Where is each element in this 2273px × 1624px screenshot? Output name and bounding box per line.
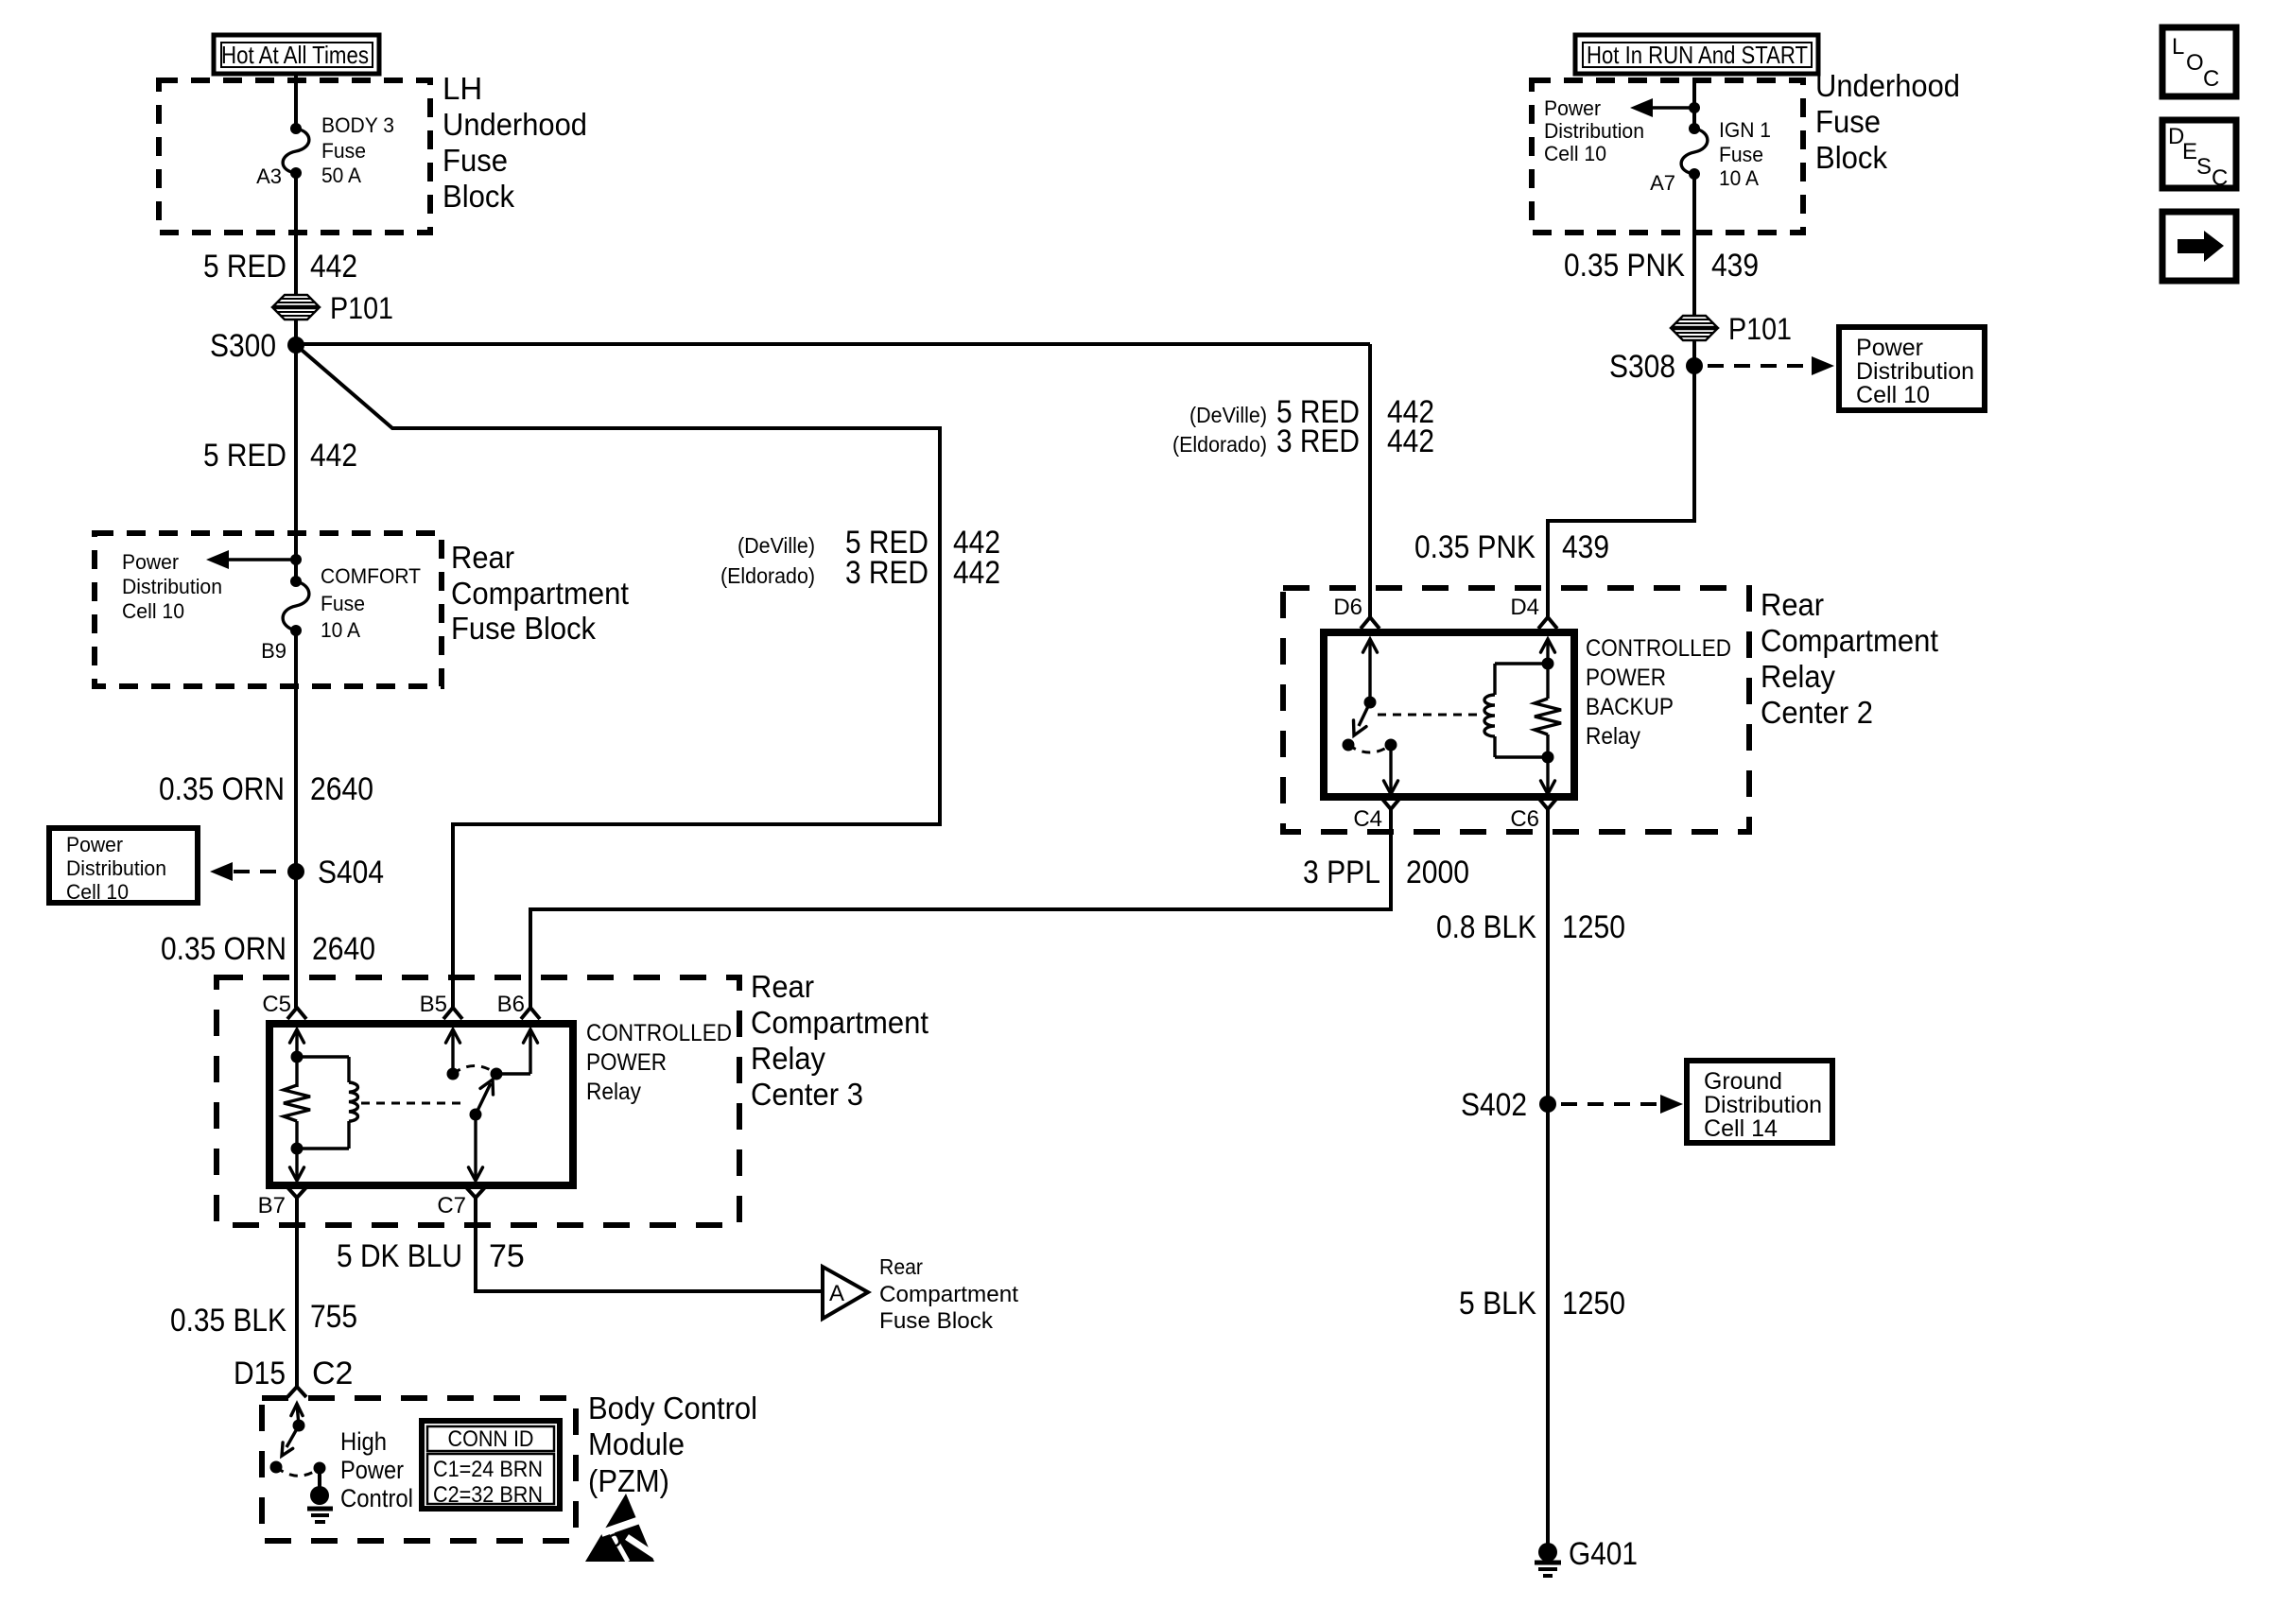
svg-text:POWER: POWER (586, 1049, 667, 1076)
wire: C7 down and right to fuse block connector A (476, 1198, 823, 1291)
svg-text:L: L (2172, 34, 2184, 60)
svg-text:Block: Block (442, 179, 514, 214)
svg-text:Relay: Relay (586, 1079, 641, 1105)
fuse IGN 1 10 A (1681, 118, 1771, 190)
resistor (relay 2) (1535, 699, 1561, 734)
svg-text:Underhood: Underhood (1815, 68, 1960, 103)
svg-text:10 A: 10 A (321, 618, 360, 642)
wire: feed into underhood fuse block (1692, 80, 1696, 129)
LOC legend box (2162, 27, 2236, 96)
svg-text:2640: 2640 (312, 931, 375, 967)
svg-text:5 RED: 5 RED (203, 249, 286, 285)
svg-text:0.8 BLK: 0.8 BLK (1436, 909, 1536, 945)
wire label (Eldorado) 3 RED 442 (mid) (720, 555, 1000, 591)
CONTROLLED POWER BACKUP Relay box (1324, 632, 1574, 797)
wire label (DeVille) 5 RED 442 (right) (1189, 394, 1434, 430)
svg-text:CONTROLLED: CONTROLLED (1586, 635, 1731, 662)
terminal C4 (1353, 798, 1400, 832)
svg-text:0.35 BLK: 0.35 BLK (170, 1303, 286, 1339)
svg-text:Block: Block (1815, 140, 1887, 175)
wire label 5 BLK 1250 (1459, 1286, 1625, 1322)
svg-text:2640: 2640 (310, 771, 373, 807)
dashed arrow S308 to Power Distribution (1708, 356, 1834, 375)
power label box: Hot At All Times (214, 35, 379, 74)
svg-text:C7: C7 (437, 1193, 466, 1218)
junction node (1689, 102, 1700, 113)
svg-text:C1=24 BRN: C1=24 BRN (433, 1457, 543, 1482)
relay coil (relay 2) (1484, 664, 1548, 757)
svg-text:Power: Power (1856, 335, 1923, 361)
svg-text:5 BLK: 5 BLK (1459, 1286, 1536, 1322)
Body Control Module dashed box (262, 1398, 576, 1541)
svg-text:Distribution: Distribution (122, 575, 222, 598)
svg-text:S308: S308 (1609, 349, 1675, 385)
terminal D4 (1510, 595, 1557, 629)
terminal C7 (437, 1187, 485, 1218)
svg-text:B9: B9 (261, 639, 286, 663)
resistor (relay 3) (284, 1085, 310, 1121)
svg-text:Fuse: Fuse (1815, 104, 1881, 139)
terminal C6 (1510, 798, 1557, 832)
svg-text:C6: C6 (1510, 806, 1539, 832)
svg-text:Power: Power (1544, 96, 1601, 120)
svg-text:B5: B5 (420, 992, 447, 1017)
Rear Compartment Fuse Block reference text (879, 1254, 1018, 1334)
svg-text:10 A: 10 A (1719, 166, 1759, 190)
svg-text:P101: P101 (1728, 312, 1792, 346)
High Power Control text (340, 1427, 413, 1512)
arrow to Power Distribution Cell 10 (206, 550, 291, 569)
svg-text:S402: S402 (1461, 1087, 1527, 1123)
svg-text:Rear: Rear (751, 969, 814, 1004)
terminal D6 (1333, 595, 1379, 629)
svg-text:Cell 14: Cell 14 (1704, 1115, 1778, 1142)
svg-text:D15: D15 (234, 1356, 286, 1391)
wire label 5 RED 442 (203, 438, 357, 474)
svg-text:Fuse: Fuse (1719, 143, 1763, 166)
wire from contact to C4 (1384, 745, 1398, 794)
Underhood Fuse Block (dashed box) (1532, 80, 1803, 233)
svg-text:Center 2: Center 2 (1761, 695, 1873, 730)
wire label 3 PPL 2000 (1303, 855, 1469, 890)
resistor branch from D4 (1541, 639, 1555, 699)
terminal C5 (262, 992, 306, 1019)
svg-text:0.35 PNK: 0.35 PNK (1564, 248, 1685, 284)
svg-text:BACKUP: BACKUP (1586, 694, 1674, 720)
svg-text:Rear: Rear (1761, 587, 1824, 622)
svg-text:Power: Power (122, 550, 179, 574)
svg-text:5 RED: 5 RED (203, 438, 286, 474)
switch contacts + dashed travel arc (relay 2) (1343, 739, 1397, 753)
wire label (DeVille) 5 RED 442 (mid) (737, 525, 1000, 561)
wire: fuse A3 down to P101 (294, 173, 298, 345)
svg-text:Relay: Relay (751, 1041, 825, 1076)
svg-text:Fuse: Fuse (442, 143, 508, 178)
svg-text:E: E (2182, 139, 2197, 164)
wire label 5 DK BLU 75 (337, 1238, 525, 1274)
svg-text:C: C (2212, 165, 2228, 191)
wire: S300 branch down to D6 (1368, 344, 1372, 617)
fuse BODY 3 50 A (283, 113, 394, 187)
Power Distribution Cell 10 box (left) (49, 828, 198, 904)
inline connector P101 (right) (1672, 312, 1792, 346)
svg-text:C5: C5 (262, 992, 291, 1017)
wire labels D15 C2 (234, 1356, 353, 1391)
power label box: Hot In RUN And START (1575, 35, 1818, 74)
dashed mechanical link (relay 2) (1378, 714, 1482, 717)
svg-text:Fuse Block: Fuse Block (879, 1308, 994, 1334)
svg-text:Cell 10: Cell 10 (1544, 142, 1606, 165)
svg-text:Cell 10: Cell 10 (122, 599, 184, 623)
svg-text:IGN 1: IGN 1 (1719, 118, 1771, 142)
wire label 0.35 ORN 2640 (second) (161, 931, 375, 967)
svg-text:B7: B7 (258, 1193, 286, 1218)
svg-text:P101: P101 (330, 291, 393, 325)
off-page connector A triangle (823, 1267, 868, 1319)
wire: S300 down into Rear Compartment Fuse Block to COMFORT fuse (294, 345, 298, 581)
Rear Compartment Relay Center 2 (dashed box) (1283, 588, 1749, 832)
switch common from B5 (446, 1029, 460, 1080)
svg-text:A: A (829, 1281, 844, 1306)
Rear Compartment Fuse Block (dashed box) (95, 533, 442, 686)
svg-text:Distribution: Distribution (1704, 1092, 1822, 1118)
svg-text:Ground: Ground (1704, 1068, 1782, 1095)
LH Underhood Fuse Block (dashed box) (159, 80, 430, 233)
svg-text:G401: G401 (1569, 1536, 1638, 1572)
svg-text:5 DK BLU: 5 DK BLU (337, 1238, 462, 1274)
wire label 5 RED 442 (203, 249, 357, 285)
svg-text:O: O (2186, 50, 2204, 76)
splice S402 (1539, 1096, 1556, 1113)
svg-text:C: C (2203, 66, 2219, 92)
wire label 0.35 PNK 439 (1564, 248, 1759, 284)
wire: C6 down to G401 (1546, 809, 1550, 1552)
switch arm with arrow (BCM) (282, 1425, 299, 1456)
svg-text:Cell 10: Cell 10 (66, 880, 129, 904)
wire label 0.35 ORN 2640 (159, 771, 373, 807)
ground G401 (1535, 1536, 1638, 1576)
svg-text:Fuse Block: Fuse Block (451, 611, 596, 646)
splice S300 (287, 337, 304, 354)
switch contact from B6 (491, 1029, 538, 1080)
wire below resistor to C6 (1541, 734, 1555, 794)
svg-text:2000: 2000 (1406, 855, 1469, 890)
svg-text:(DeVille): (DeVille) (1189, 403, 1267, 427)
svg-text:0.35 PNK: 0.35 PNK (1414, 529, 1536, 565)
switch arm with arrow (relay 2) (1354, 702, 1371, 735)
wire: COMFORT fuse down to C5 (294, 631, 298, 1008)
svg-text:Compartment: Compartment (751, 1005, 928, 1040)
BCM input arrow (high power control switch) (291, 1404, 305, 1432)
switch contacts + dashed travel arc (BCM) (270, 1461, 326, 1477)
svg-text:CONN ID: CONN ID (448, 1426, 534, 1452)
arrow legend box (2162, 212, 2236, 281)
wire: S300 branch right (296, 342, 1370, 346)
wire: S300 diagonal branch to B5 (296, 345, 940, 1008)
arrow to Power Distribution Cell 10 (1630, 98, 1691, 117)
svg-text:Control: Control (340, 1484, 413, 1512)
wire label 0.35 BLK 755 (170, 1299, 357, 1339)
ESD sensitivity symbol (585, 1494, 663, 1562)
svg-text:Hot In RUN And START: Hot In RUN And START (1587, 41, 1808, 69)
terminal B6 (497, 992, 540, 1019)
svg-text:Underhood: Underhood (442, 107, 587, 142)
switch arm with arrow (relay 3) (470, 1080, 494, 1121)
svg-text:B6: B6 (497, 992, 525, 1017)
relay coil branch (pin C5) (290, 1029, 304, 1087)
svg-text:1250: 1250 (1562, 1286, 1625, 1322)
svg-text:0.35 ORN: 0.35 ORN (159, 771, 285, 807)
wire from switch arm to C7 (469, 1114, 483, 1181)
svg-text:COMFORT: COMFORT (321, 564, 421, 588)
wire: battery feed into LH underhood fuse block (294, 76, 298, 129)
svg-text:A3: A3 (256, 164, 282, 188)
svg-text:442: 442 (953, 555, 1000, 591)
wire: S308 down, jog left to D4 (1548, 366, 1694, 617)
dashed arrow S402 to Ground Distribution (1561, 1095, 1683, 1114)
svg-text:S: S (2196, 154, 2212, 180)
CONTROLLED POWER Relay box (269, 1024, 573, 1185)
CONN ID table (422, 1421, 560, 1509)
wire: C4 down, left, to B6 (530, 809, 1391, 1008)
svg-text:Fuse: Fuse (321, 139, 366, 163)
internal ground (BCM) (307, 1468, 333, 1522)
svg-text:S404: S404 (318, 855, 384, 890)
svg-text:C4: C4 (1353, 806, 1382, 832)
svg-text:A7: A7 (1650, 171, 1675, 195)
svg-text:LH: LH (442, 71, 482, 106)
DESC legend box (2162, 120, 2236, 191)
wire: B7 down to BCM D15 (295, 1198, 299, 1387)
wire label (Eldorado) 3 RED 442 (right) (1172, 423, 1434, 459)
svg-text:Compartment: Compartment (1761, 623, 1938, 658)
svg-text:3 RED: 3 RED (845, 555, 928, 591)
wire below resistor to B7 (290, 1121, 304, 1181)
splice S404 (287, 863, 304, 880)
splice S308 (1686, 357, 1703, 374)
svg-text:S300: S300 (210, 328, 276, 364)
svg-text:3 RED: 3 RED (1276, 423, 1360, 459)
svg-text:CONTROLLED: CONTROLLED (586, 1020, 732, 1046)
svg-text:442: 442 (1387, 423, 1434, 459)
dashed mechanical link (relay 3) (361, 1102, 465, 1105)
terminal D15/C2 at BCM (287, 1387, 306, 1397)
svg-text:Body Control: Body Control (588, 1391, 757, 1425)
svg-text:Rear: Rear (879, 1254, 923, 1279)
wire label 0.35 PNK 439 (second) (1414, 529, 1609, 565)
fuse COMFORT 10 A (283, 564, 421, 642)
svg-text:Rear: Rear (451, 540, 514, 575)
svg-text:Power: Power (66, 833, 123, 856)
svg-text:1250: 1250 (1562, 909, 1625, 945)
svg-text:3 PPL: 3 PPL (1303, 855, 1380, 890)
svg-text:439: 439 (1711, 248, 1759, 284)
svg-text:D4: D4 (1510, 595, 1539, 620)
svg-text:POWER: POWER (1586, 665, 1666, 691)
svg-text:Fuse: Fuse (321, 592, 365, 615)
junction node to Power Distribution (290, 554, 302, 565)
svg-text:Power: Power (340, 1456, 404, 1484)
Power Distribution Cell 10 text (in underhood block) (1544, 96, 1644, 165)
svg-text:C2=32 BRN: C2=32 BRN (433, 1482, 543, 1508)
svg-text:High: High (340, 1427, 387, 1456)
svg-text:C2: C2 (312, 1356, 353, 1391)
svg-text:(PZM): (PZM) (588, 1463, 669, 1498)
svg-text:439: 439 (1562, 529, 1609, 565)
svg-text:442: 442 (310, 249, 357, 285)
svg-text:(Eldorado): (Eldorado) (720, 563, 815, 588)
svg-text:Distribution: Distribution (1856, 358, 1974, 385)
svg-text:75: 75 (489, 1238, 525, 1274)
svg-text:50 A: 50 A (321, 164, 361, 187)
Power Distribution Cell 10 text (in fuse block) (122, 550, 222, 623)
svg-text:755: 755 (310, 1299, 357, 1335)
svg-text:BODY 3: BODY 3 (321, 113, 394, 137)
wire: fuse A7 down to P101 (1692, 174, 1696, 366)
svg-text:Compartment: Compartment (451, 576, 629, 611)
svg-text:Module: Module (588, 1426, 685, 1461)
terminal B7 (258, 1187, 306, 1218)
svg-text:D6: D6 (1333, 595, 1362, 620)
dashed travel arc (relay 3) (453, 1066, 496, 1075)
svg-text:Distribution: Distribution (66, 856, 166, 880)
svg-text:Center 3: Center 3 (751, 1077, 863, 1112)
dashed arrow S404 to Power Distribution (210, 862, 286, 881)
svg-text:0.35 ORN: 0.35 ORN (161, 931, 286, 967)
Rear Compartment Relay Center 3 (dashed box) (217, 977, 739, 1225)
Ground Distribution Cell 14 box (1687, 1061, 1832, 1143)
terminal B5 (420, 992, 462, 1019)
svg-text:Hot At All Times: Hot At All Times (221, 41, 369, 69)
svg-text:Cell 10: Cell 10 (1856, 382, 1930, 408)
inline connector P101 (left) (273, 291, 393, 325)
svg-text:Relay: Relay (1761, 659, 1835, 694)
relay coil (relay 3) (297, 1057, 357, 1149)
Power Distribution Cell 10 box (right) (1839, 327, 1985, 410)
svg-text:Distribution: Distribution (1544, 119, 1644, 143)
svg-text:Compartment: Compartment (879, 1282, 1018, 1307)
svg-text:(Eldorado): (Eldorado) (1172, 432, 1267, 457)
svg-text:Relay: Relay (1586, 723, 1640, 750)
svg-text:442: 442 (310, 438, 357, 474)
svg-text:(DeVille): (DeVille) (737, 533, 815, 558)
switch common from D6 (1363, 639, 1378, 709)
wire label 0.8 BLK 1250 (1436, 909, 1625, 945)
